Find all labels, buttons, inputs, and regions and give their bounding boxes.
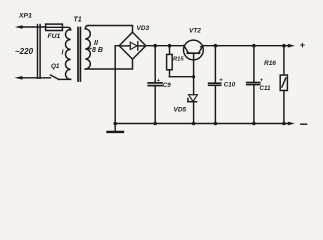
junction dots top rail [153, 44, 285, 48]
label - output [301, 123, 307, 125]
bridge rectifier VD3 [119, 32, 146, 59]
fuse FU1 [46, 24, 63, 30]
svg-text:FU1: FU1 [48, 33, 61, 40]
svg-text:VD5: VD5 [174, 107, 187, 114]
capacitor C10 [209, 46, 221, 124]
connector XP1 bottom pin arrow [15, 76, 51, 80]
wire secondary bottom to bridge [85, 59, 132, 69]
transformer core [78, 28, 80, 82]
label ~8 B [86, 48, 91, 49]
wire secondary top to bridge [88, 26, 133, 33]
junction dot R15 base node [192, 75, 195, 78]
svg-text:XP1: XP1 [18, 13, 32, 20]
connector XP1 bar [38, 25, 41, 79]
bottom rail [115, 123, 289, 125]
resistor R15 [167, 46, 194, 77]
svg-text:+: + [219, 78, 223, 84]
svg-text:C9: C9 [163, 82, 171, 89]
junction dots bottom rail [113, 122, 285, 126]
top rail left segment [146, 45, 184, 47]
transformer T1 primary winding [66, 29, 71, 79]
resistor R16 [280, 46, 287, 124]
svg-text:~220: ~220 [15, 47, 34, 56]
output + arrow [288, 44, 295, 48]
switch Q1 [51, 75, 71, 79]
ground bar [114, 124, 116, 132]
zener diode VD5 [188, 95, 198, 124]
wire fuse to transformer [62, 27, 70, 30]
top rail right segment [203, 45, 290, 47]
svg-text:VT2: VT2 [189, 28, 201, 35]
transformer T1 secondary winding [85, 29, 90, 69]
svg-text:+: + [300, 40, 306, 50]
svg-text:C11: C11 [260, 85, 271, 92]
svg-text:8 B: 8 B [92, 47, 103, 54]
svg-text:R16: R16 [264, 60, 276, 67]
svg-text:Q1: Q1 [51, 63, 60, 70]
transistor VT2 [184, 40, 204, 95]
svg-text:T1: T1 [74, 17, 82, 24]
svg-text:R15: R15 [173, 57, 184, 63]
capacitor C9 [148, 46, 162, 124]
capacitor C11 [247, 46, 260, 124]
svg-text:VD3: VD3 [137, 25, 150, 32]
svg-text:C10: C10 [224, 81, 236, 88]
connector XP1 top pin arrow [15, 25, 46, 29]
wire bridge minus down [115, 46, 119, 124]
svg-text:+: + [260, 78, 263, 84]
output - arrow [288, 122, 295, 126]
